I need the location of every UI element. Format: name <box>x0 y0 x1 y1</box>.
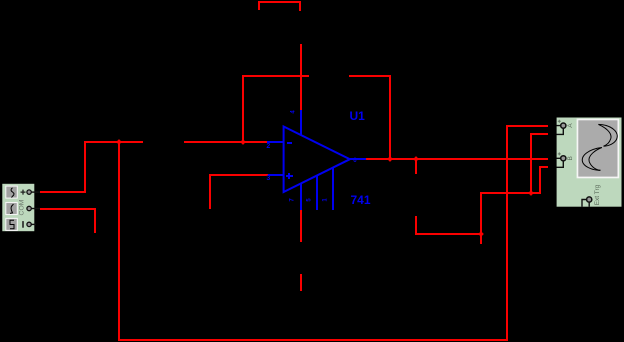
svg-text:Ext Trg: Ext Trg <box>594 184 601 205</box>
svg-text:B: B <box>567 156 574 160</box>
svg-text:COM: COM <box>19 200 26 216</box>
svg-text:A: A <box>567 123 574 128</box>
